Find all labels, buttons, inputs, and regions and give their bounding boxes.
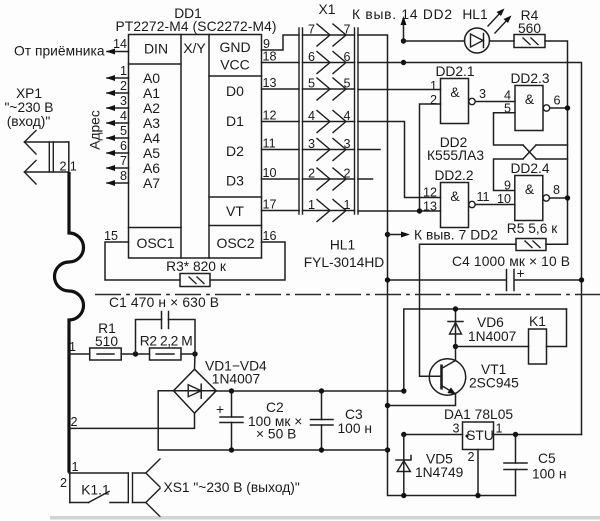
svg-text:&: &: [450, 85, 459, 100]
connector X1: [299, 28, 358, 214]
svg-text:C2: C2: [266, 400, 284, 415]
wire pin 13 D0 to X1 row 5: [262, 88, 300, 90]
wire R5 left to VT1 base: [420, 244, 517, 376]
wire pin 14 DIN with arrow: [106, 49, 129, 55]
svg-text:7: 7: [308, 23, 315, 37]
junction DA1 pin2 on ground rail: [475, 493, 480, 498]
wire pin 18 VCC to X1 row 6: [262, 62, 300, 64]
wire R5 right: [546, 243, 568, 245]
node К выв. 7 DD2 arrow: [385, 232, 410, 238]
svg-text:16: 16: [263, 229, 277, 243]
wire X1 row1 VT to DD2.2 pin13: [358, 210, 441, 212]
svg-text:2: 2: [60, 476, 67, 490]
junction C3 bottom: [319, 447, 324, 452]
svg-text:DA1 78L05: DA1 78L05: [444, 407, 513, 422]
capacitor C1 loop: [136, 312, 196, 355]
socket XS1: [128, 459, 160, 517]
wire X1 row7 to GND rail: [358, 35, 516, 496]
svg-text:+: +: [517, 266, 525, 281]
svg-text:&: &: [450, 189, 459, 204]
gate DD2.3: [515, 86, 550, 131]
wire pin 17 VT to X1 row 1: [262, 210, 300, 212]
svg-text:1: 1: [430, 79, 437, 93]
wire LED anode: [404, 40, 465, 42]
svg-text:X1: X1: [319, 2, 336, 17]
wire XS1 pin2 branch: [69, 473, 71, 503]
diode VD6: [448, 309, 463, 347]
svg-text:17: 17: [263, 198, 277, 212]
svg-text:HL1: HL1: [330, 238, 355, 253]
wire to right vertical lower: [536, 158, 568, 160]
resistor R1: [90, 348, 122, 360]
divider dash-dot line: [95, 294, 600, 296]
svg-text:1: 1: [308, 198, 315, 212]
junction R2/C1/bridge: [192, 351, 197, 356]
svg-text:A5: A5: [143, 145, 160, 161]
wire DA1 pin3 input: [404, 434, 463, 436]
svg-text:4: 4: [120, 109, 127, 123]
svg-text:От приёмника: От приёмника: [14, 44, 105, 59]
IC DD1 body: [129, 35, 262, 259]
svg-text:C1 470 н × 630 В: C1 470 н × 630 В: [109, 295, 219, 310]
capacitor C4: [388, 266, 582, 291]
wire X1 row3 stub: [358, 149, 380, 151]
svg-text:3: 3: [452, 422, 459, 436]
capacitor C2: [216, 391, 243, 450]
wire VT strobe to DD2.1 pin2: [420, 104, 441, 211]
junction VD6 top: [453, 306, 458, 311]
wire R4 to DD2.3 output / R5 (right vertical): [545, 41, 568, 244]
wire XS1 pin1: [69, 472, 128, 474]
transistor VT1: [388, 347, 466, 406]
svg-text:A4: A4: [143, 130, 160, 146]
capacitor C5: [504, 435, 527, 496]
svg-text:HL1: HL1: [462, 7, 487, 22]
pin labels A0-A7: [143, 70, 160, 191]
svg-text:4: 4: [344, 109, 351, 123]
junction VT1 emitter on GND: [385, 403, 390, 408]
wire DA1 pin1 output: [494, 434, 582, 436]
svg-text:C4 1000 мк × 10 В: C4 1000 мк × 10 В: [452, 254, 570, 269]
zener diode VD5: [396, 435, 411, 496]
junction C5 top: [513, 432, 518, 437]
svg-text:11: 11: [476, 190, 489, 204]
svg-text:12: 12: [263, 109, 277, 123]
svg-text:2: 2: [344, 167, 351, 181]
svg-text:DD2.2: DD2.2: [434, 168, 473, 183]
resistor R3: [180, 274, 210, 287]
bridge rectifier VD1-VD4: [174, 354, 217, 413]
junction DA1 pin3: [401, 432, 406, 437]
wire DD2.1 out to DD2.3 pin4: [475, 101, 515, 103]
wire pin 15 OSC1 to R3: [105, 242, 180, 280]
junction VCC/LED: [401, 38, 406, 43]
svg-text:4: 4: [504, 89, 511, 103]
svg-text:1: 1: [120, 64, 127, 78]
wire bridge plus rail: [216, 390, 404, 392]
svg-text:2SC945: 2SC945: [469, 376, 519, 391]
svg-text:6: 6: [553, 94, 560, 108]
svg-text:11: 11: [263, 137, 276, 151]
svg-text:6: 6: [344, 50, 351, 64]
svg-text:7: 7: [344, 23, 351, 37]
wire X1 row4 to DD2.2 pin12: [358, 122, 441, 198]
resistor R5: [516, 239, 546, 251]
svg-text:FYL-3014HD: FYL-3014HD: [304, 255, 385, 270]
wire DD2.4 output pin8: [550, 197, 568, 199]
svg-text:3: 3: [479, 87, 486, 101]
svg-text:XS1 "~230 В (выход)": XS1 "~230 В (выход)": [164, 480, 300, 495]
gate DD2.4: [515, 176, 550, 221]
svg-text:6: 6: [308, 50, 315, 64]
svg-text:A3: A3: [143, 115, 160, 131]
cross-coupling wire DD2.4 out to DD2.3 pin5: [494, 113, 524, 145]
svg-text:&: &: [525, 182, 534, 197]
svg-text:18: 18: [263, 50, 277, 64]
svg-text:DD2.4: DD2.4: [510, 161, 549, 176]
wire 1 tap to R1: [69, 353, 90, 355]
wire R1 to R2: [121, 353, 149, 355]
svg-text:5: 5: [308, 77, 315, 91]
cross diagonal 2: [523, 145, 536, 159]
svg-text:1N4007: 1N4007: [212, 372, 260, 387]
svg-text:8: 8: [553, 183, 560, 197]
svg-text:R2 2,2 М: R2 2,2 М: [140, 334, 193, 349]
pin labels D0-D3: [226, 83, 244, 189]
capacitor C3: [311, 391, 334, 450]
svg-text:VT: VT: [226, 203, 244, 219]
svg-text:К555ЛА3: К555ЛА3: [427, 148, 484, 163]
junction C4 left on GND: [385, 277, 390, 282]
wire bridge minus to bottom rail: [158, 391, 387, 450]
svg-text:R5 5,6 к: R5 5,6 к: [507, 221, 558, 236]
svg-text:OSC2: OSC2: [216, 235, 254, 251]
svg-text:10: 10: [263, 166, 277, 180]
svg-text:GND: GND: [219, 39, 250, 55]
svg-text:6: 6: [120, 139, 127, 153]
svg-text:D0: D0: [226, 83, 244, 99]
wire pin 12 D1 to X1 row 4: [262, 121, 300, 123]
svg-text:C5: C5: [538, 451, 556, 466]
node К выв. 14 DD2 arrow: [401, 16, 407, 41]
svg-text:A6: A6: [143, 160, 160, 176]
junction DD2.4 out: [565, 195, 570, 200]
junction DD2.3 out: [565, 105, 570, 110]
svg-text:К выв. 14 DD2: К выв. 14 DD2: [352, 7, 452, 22]
svg-text:7: 7: [120, 154, 127, 168]
svg-text:5: 5: [120, 124, 127, 138]
svg-text:2: 2: [59, 160, 66, 174]
svg-text:K1.1: K1.1: [81, 483, 109, 498]
svg-text:К выв. 7 DD2: К выв. 7 DD2: [414, 228, 498, 243]
junction GND rail / C2C3 rail: [385, 447, 390, 452]
svg-text:12: 12: [423, 186, 437, 200]
LED HL1: [465, 9, 512, 54]
resistor R4: [514, 35, 545, 48]
wire DD2.2 out to DD2.4 pin10: [475, 204, 515, 206]
wire relay top rail: [404, 309, 567, 391]
junction plus rail / DA1 input: [401, 388, 406, 393]
svg-text:DIN: DIN: [144, 41, 168, 57]
svg-text:5: 5: [344, 77, 351, 91]
junction VCC row6: [401, 60, 406, 65]
svg-text:&: &: [525, 92, 534, 107]
resistor R2: [150, 348, 182, 360]
junction C3 top: [319, 388, 324, 393]
svg-text:OSC1: OSC1: [136, 235, 174, 251]
svg-text:1: 1: [70, 160, 77, 174]
svg-text:DD2.1: DD2.1: [435, 64, 474, 79]
svg-text:15: 15: [104, 229, 118, 243]
wire X1 row5 to DD2.1 pin1: [358, 89, 441, 91]
svg-text:+: +: [216, 402, 224, 417]
svg-text:2: 2: [71, 415, 78, 429]
svg-text:× 50 В: × 50 В: [256, 427, 296, 442]
svg-text:A0: A0: [143, 70, 160, 86]
junction C2 top: [229, 388, 234, 393]
svg-text:1N4007: 1N4007: [468, 329, 516, 344]
wire DA1 pin2 ground: [477, 450, 479, 496]
svg-text:3: 3: [344, 137, 351, 151]
junction C4 right on VCC line: [579, 277, 584, 282]
svg-text:PT2272-M4 (SC2272-M4): PT2272-M4 (SC2272-M4): [116, 19, 277, 34]
svg-text:D3: D3: [226, 173, 244, 189]
svg-text:2: 2: [430, 93, 437, 107]
svg-text:100 н: 100 н: [532, 467, 566, 482]
wire pin 16 OSC2 to R3: [210, 242, 285, 280]
wire LED cathode to R4: [490, 40, 515, 42]
cross-coupling wire DD2.3 out to DD2.4 pin9: [494, 159, 524, 191]
svg-text:STU: STU: [466, 428, 494, 443]
svg-text:VCC: VCC: [220, 57, 250, 73]
svg-text:C3: C3: [345, 407, 363, 422]
junction C2 bottom: [229, 447, 234, 452]
svg-text:A7: A7: [143, 175, 160, 191]
gate DD2.1: [441, 79, 476, 124]
svg-text:8: 8: [120, 169, 127, 183]
svg-text:2: 2: [467, 450, 474, 464]
junction R1/R2/C1: [133, 351, 138, 356]
wire 2 tap to bridge: [69, 413, 195, 428]
svg-text:3: 3: [308, 137, 315, 151]
junction VT strobe: [417, 208, 422, 213]
wire pin 9 GND to X1 row 7: [262, 35, 300, 50]
svg-text:13: 13: [263, 76, 277, 90]
svg-text:A1: A1: [143, 85, 160, 101]
wire DD2.3 output pin6: [550, 107, 568, 109]
svg-text:2: 2: [308, 167, 315, 181]
connector X1 right pin numbers 7,6,5,4,3,2,1: [344, 23, 351, 213]
connector X1 left pin numbers 7,6,5,4,3,2,1: [308, 23, 315, 213]
svg-text:D2: D2: [226, 143, 244, 159]
svg-text:3: 3: [120, 94, 127, 108]
svg-text:1: 1: [72, 460, 79, 474]
svg-text:DD2.3: DD2.3: [510, 71, 549, 86]
svg-text:510: 510: [95, 334, 118, 349]
wire R2 right: [181, 353, 195, 355]
svg-text:D1: D1: [226, 113, 244, 129]
svg-text:13: 13: [423, 200, 437, 214]
svg-text:ХР1: ХР1: [16, 86, 42, 101]
svg-text:1: 1: [69, 340, 76, 354]
junction VD5 bottom: [401, 493, 406, 498]
regulator DA1 78L05: [463, 422, 494, 450]
svg-text:1: 1: [344, 198, 351, 212]
svg-text:VD6: VD6: [477, 315, 504, 330]
wire X1 row2 stub: [358, 178, 373, 180]
svg-text:100 н: 100 н: [338, 421, 372, 436]
svg-text:A2: A2: [143, 100, 160, 116]
svg-text:1: 1: [496, 422, 503, 436]
wire X1 row6 VCC line to right edge: [358, 63, 582, 435]
svg-text:4: 4: [308, 109, 315, 123]
wires address pins A0-A7 with arrows: [106, 75, 129, 186]
junction VD6 bottom: [453, 344, 458, 349]
svg-text:(вход)": (вход)": [7, 114, 51, 129]
svg-text:K1: K1: [529, 314, 546, 329]
svg-text:1N4749: 1N4749: [415, 465, 464, 480]
mains cable (wavy cord): [55, 172, 84, 473]
gate DD2.2: [441, 183, 476, 228]
pin numbers 1-8: [120, 64, 127, 183]
svg-text:Адрес: Адрес: [88, 110, 103, 150]
plug XP1: [24, 131, 68, 185]
relay coil K1: [456, 309, 567, 364]
svg-text:14: 14: [113, 37, 127, 51]
svg-text:X/Y: X/Y: [183, 40, 206, 56]
svg-text:R3* 820 к: R3* 820 к: [166, 259, 227, 274]
svg-text:2: 2: [120, 79, 127, 93]
relay contact K1.1: [70, 492, 129, 503]
connector X1 chevrons and row wires: [303, 24, 355, 222]
svg-text:10: 10: [497, 192, 511, 206]
svg-text:9: 9: [504, 179, 511, 193]
wire pin 10 D3 to X1 row 2: [262, 178, 300, 180]
svg-text:"~230 В: "~230 В: [4, 100, 53, 115]
wire pin 11 D2 to X1 row 3: [262, 149, 300, 151]
cross diagonal 1: [523, 145, 536, 159]
svg-text:560: 560: [518, 21, 541, 36]
scan artifact bottom band: [50, 516, 600, 520]
wire to right vertical upper: [536, 144, 568, 146]
